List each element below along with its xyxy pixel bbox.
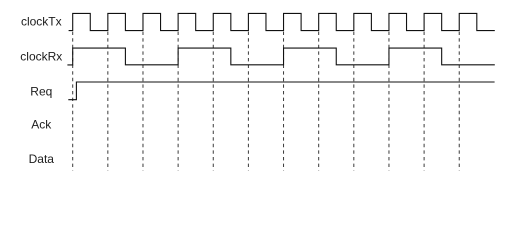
gridline t1 [107, 32, 109, 171]
vertical dashed gridlines (12 lines, pitch 35.14) [73, 32, 460, 171]
svg-text:Data: Data [29, 152, 55, 166]
gridline t9 [388, 32, 390, 171]
signal clockRx waveform [67, 48, 494, 65]
gridline t0 [72, 32, 74, 171]
gridline t3 [177, 32, 179, 171]
gridline t4 [212, 32, 214, 171]
svg-text:clockRx: clockRx [20, 49, 62, 63]
signal Req waveform [68, 82, 494, 100]
gridline t11 [458, 32, 460, 171]
svg-text:clockTx: clockTx [21, 14, 62, 28]
svg-text:Req: Req [30, 84, 52, 98]
gridline t8 [353, 32, 355, 171]
gridline t6 [283, 32, 285, 171]
signal clockTx waveform [69, 13, 495, 30]
svg-text:Ack: Ack [31, 118, 52, 132]
gridline t5 [247, 32, 249, 171]
gridline t2 [142, 32, 144, 171]
gridline t7 [318, 32, 320, 171]
gridline t10 [423, 32, 425, 171]
